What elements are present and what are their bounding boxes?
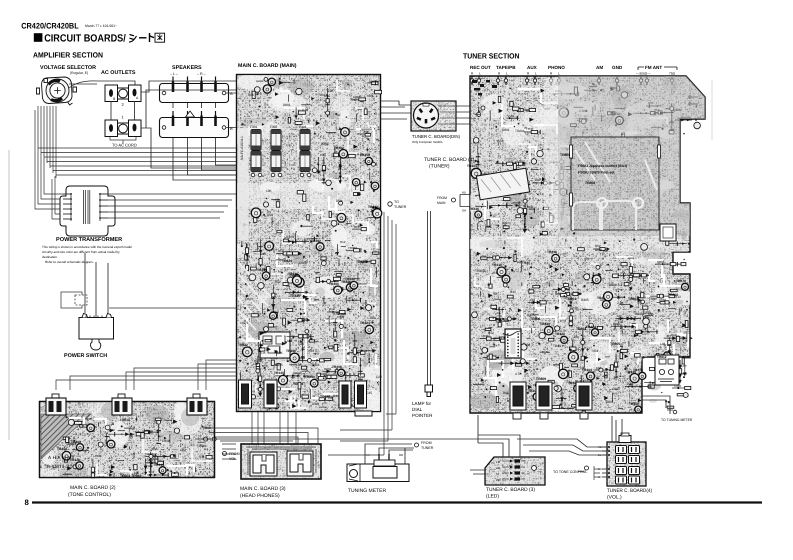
svg-text:L08: L08 (525, 343, 531, 347)
svg-text:C810: C810 (162, 439, 170, 443)
svg-text:TR40: TR40 (649, 297, 657, 301)
svg-text:R305: R305 (581, 298, 589, 302)
svg-text:TR804: TR804 (310, 363, 320, 367)
svg-text:POINTER: POINTER (412, 413, 433, 418)
power transformer T1 (60, 186, 115, 236)
svg-text:TR40: TR40 (522, 261, 530, 265)
svg-text:L08: L08 (660, 342, 666, 346)
svg-text:FROM: FROM (421, 441, 432, 445)
svg-text:10K: 10K (647, 385, 654, 389)
svg-text:R12: R12 (329, 307, 335, 311)
svg-text:TR458: TR458 (257, 268, 267, 272)
svg-text:AM: AM (596, 65, 603, 70)
svg-text:C803: C803 (477, 269, 485, 273)
svg-text:10K: 10K (328, 89, 335, 93)
svg-text:C803: C803 (683, 356, 691, 360)
to tuner marker (388, 202, 392, 206)
main board clutter mid-right (312, 128, 379, 191)
svg-text:473: 473 (620, 271, 625, 275)
svg-text:TUNER C. BOARD(4): TUNER C. BOARD(4) (607, 488, 652, 494)
svg-text:R66: R66 (503, 391, 509, 395)
svg-text:10K: 10K (617, 314, 622, 318)
svg-text:R801: R801 (324, 367, 332, 371)
svg-text:POWER TRANSFORMER: POWER TRANSFORMER (56, 237, 122, 243)
svg-text:473: 473 (199, 455, 205, 459)
svg-text:TR436: TR436 (547, 250, 557, 254)
svg-text:circuitry and wire color are d: circuitry and wire color are different f… (42, 250, 120, 254)
svg-text:473: 473 (625, 324, 631, 328)
svg-text:102: 102 (596, 366, 601, 370)
heading: CIRCUIT BOARDS/sheet-zu (34, 33, 43, 42)
wire bundle selector to main board (35, 81, 236, 219)
svg-text:102: 102 (530, 298, 535, 302)
svg-text:10K: 10K (95, 454, 100, 458)
tuner board blotches (466, 75, 705, 409)
svg-text:TR40: TR40 (553, 344, 561, 348)
svg-text:NA-FC-61604-1: NA-FC-61604-1 (240, 136, 244, 160)
svg-text:B: B (230, 126, 233, 131)
svg-text:R66: R66 (370, 316, 376, 320)
svg-text:10K: 10K (277, 351, 284, 355)
svg-text:D801: D801 (283, 103, 291, 107)
svg-text:R66: R66 (354, 225, 360, 229)
svg-text:TR440: TR440 (274, 371, 284, 375)
svg-text:DIAL: DIAL (412, 407, 423, 412)
svg-text:TR805: TR805 (610, 342, 620, 346)
svg-text:2.2K: 2.2K (363, 130, 370, 134)
svg-text:S-IOəTə-ƆƆ: S-IOəTə-ƆƆ (47, 464, 73, 469)
svg-text:AC OUTLETS: AC OUTLETS (101, 70, 136, 76)
svg-text:TR806: TR806 (530, 317, 540, 321)
svg-text:C45: C45 (260, 252, 266, 256)
svg-text:L08: L08 (535, 178, 540, 182)
VOL board wires up (517, 416, 622, 455)
svg-text:D801: D801 (606, 400, 614, 404)
svg-text:R12: R12 (510, 290, 516, 294)
head phones wiring (246, 447, 316, 475)
svg-text:VR3: VR3 (308, 349, 314, 353)
svg-text:8: 8 (25, 498, 30, 507)
IC802 (505, 329, 521, 358)
svg-text:TR422: TR422 (238, 343, 248, 347)
svg-text:RD: RD (598, 446, 602, 449)
svg-text:TUNER: TUNER (394, 205, 407, 209)
svg-text:C22: C22 (376, 375, 382, 379)
svg-text:TR808: TR808 (585, 181, 595, 185)
main C board (MAIN) outline and texture (236, 74, 381, 412)
svg-text:R12: R12 (666, 351, 672, 355)
dial scale plate (476, 168, 529, 200)
svg-text:R66: R66 (152, 447, 158, 451)
wires meter (365, 444, 414, 454)
white box TR811 (655, 355, 679, 385)
tone board border restroke (40, 402, 215, 478)
svg-text:(LED): (LED) (486, 494, 499, 500)
VOL board left pins (602, 446, 610, 478)
svg-text:VR3: VR3 (257, 343, 263, 347)
svg-text:(Regular, E): (Regular, E) (70, 71, 88, 75)
svg-text:R305: R305 (321, 142, 329, 146)
svg-text:AHAMAY: AHAMAY (48, 455, 76, 460)
svg-text:C803: C803 (299, 261, 307, 265)
svg-text:L08: L08 (148, 452, 153, 456)
svg-text:102: 102 (502, 221, 508, 225)
svg-text:4.7K: 4.7K (360, 330, 367, 334)
tuner transistor labels (500, 153, 678, 381)
svg-text:FS08J Japanese models (BA1): FS08J Japanese models (BA1) (578, 164, 627, 168)
svg-text:4.7K: 4.7K (560, 329, 567, 333)
svg-text:L08: L08 (618, 320, 624, 324)
svg-text:TR436: TR436 (469, 207, 479, 211)
svg-text:TR422: TR422 (356, 260, 366, 264)
svg-text:TR402: TR402 (334, 146, 344, 150)
page fold crease left (8, 150, 10, 440)
svg-text:D801: D801 (595, 248, 603, 252)
tuner board clutter mid band (475, 231, 690, 291)
svg-text:473: 473 (584, 257, 590, 261)
svg-text:FM ANT: FM ANT (645, 65, 662, 70)
svg-text:REC OUT: REC OUT (470, 65, 491, 70)
svg-text:473: 473 (243, 321, 249, 325)
svg-text:C45: C45 (298, 342, 304, 346)
main board clutter mid (236, 189, 382, 271)
svg-text:(TUNER): (TUNER) (429, 164, 450, 170)
svg-text:TUNER C. BOARD(DIN): TUNER C. BOARD(DIN) (412, 134, 461, 139)
svg-text:75Ω: 75Ω (669, 72, 676, 76)
svg-text:FROM: FROM (229, 452, 240, 456)
svg-text:R9: R9 (526, 109, 530, 113)
svg-text:MAIN C. BOARD (2): MAIN C. BOARD (2) (70, 485, 116, 491)
svg-text:AMPLIFIER SECTION: AMPLIFIER SECTION (33, 51, 103, 60)
tone board top connectors (52, 394, 59, 399)
speaker terminal board A (160, 84, 229, 103)
svg-text:LAMP for: LAMP for (412, 401, 432, 406)
svg-text:R12: R12 (278, 249, 284, 253)
main board diagonal traces (238, 262, 272, 346)
svg-text:– L –: – L – (170, 72, 178, 76)
svg-text:Only European models: Only European models (412, 140, 443, 144)
wires speakers to main board (173, 93, 236, 180)
LED board wires (195, 415, 520, 474)
svg-text:RD: RD (462, 191, 466, 195)
tuner board bottom connectors (510, 382, 592, 410)
svg-text:D801: D801 (320, 372, 328, 376)
transformer pins (63, 193, 108, 220)
tone board hatched wedge (41, 414, 91, 459)
svg-text:4.7K: 4.7K (357, 152, 364, 156)
svg-text:POWER SWITCH: POWER SWITCH (64, 353, 107, 359)
svg-text:C803: C803 (271, 310, 279, 314)
svg-text:473: 473 (486, 225, 492, 229)
svg-text:10K: 10K (580, 366, 587, 370)
svg-text:L08: L08 (253, 362, 259, 366)
FM ANT bracket (638, 67, 677, 70)
tuner light vein (473, 78, 688, 252)
tuner dark zone (558, 76, 705, 236)
svg-text:R9: R9 (267, 210, 271, 214)
svg-text:TR424: TR424 (467, 164, 477, 168)
svg-text:VR3: VR3 (600, 298, 606, 302)
svg-text:TR414: TR414 (154, 463, 164, 467)
svg-text:R12: R12 (671, 333, 677, 337)
svg-text:GY: GY (598, 476, 602, 479)
svg-text:TR802: TR802 (628, 297, 638, 301)
main board clutter top (241, 78, 381, 127)
tuner board top pins (470, 76, 673, 85)
svg-text:TR804: TR804 (515, 129, 525, 133)
svg-text:C803: C803 (245, 297, 253, 301)
svg-text:TR446: TR446 (288, 272, 298, 276)
svg-text:PHONO: PHONO (548, 65, 565, 70)
svg-text:TR812: TR812 (657, 355, 667, 359)
svg-text:destination.: destination. (42, 255, 58, 259)
tuning meter (347, 460, 409, 482)
svg-text:Refer to overall schematic dia: Refer to overall schematic diagram. (45, 260, 94, 264)
dial area edge slots (570, 145, 661, 206)
svg-text:TR803: TR803 (576, 327, 586, 331)
svg-text:TR809: TR809 (536, 377, 546, 381)
voltage selector S1 (37, 77, 77, 105)
svg-text:R9: R9 (349, 296, 353, 300)
LED board outline (485, 457, 545, 485)
svg-text:MAIN: MAIN (437, 201, 446, 205)
svg-text:R66: R66 (248, 93, 254, 97)
wires above head phones (205, 428, 318, 445)
svg-text:D801: D801 (502, 128, 510, 132)
transformer lead wires left (63, 194, 71, 219)
tuner board clutter bottom (472, 279, 693, 415)
svg-text:R9: R9 (129, 435, 133, 439)
svg-text:D801: D801 (495, 336, 503, 340)
svg-text:VR3: VR3 (367, 94, 373, 98)
svg-text:TR430: TR430 (290, 294, 300, 298)
svg-text:C803: C803 (370, 80, 378, 84)
bottom rule (32, 501, 762, 503)
svg-text:CR420/CR420BL: CR420/CR420BL (21, 22, 79, 31)
svg-text:AM: AM (496, 466, 501, 470)
wires AC outlets (97, 81, 236, 168)
svg-text:BL: BL (598, 454, 602, 457)
svg-text:OR: OR (462, 209, 466, 213)
wires to power switch (85, 253, 237, 317)
svg-text:TR804: TR804 (197, 444, 207, 448)
svg-text:TUNER C. BOARD (3): TUNER C. BOARD (3) (486, 487, 535, 493)
svg-text:TR430: TR430 (540, 322, 550, 326)
tuner input labels (470, 65, 662, 70)
svg-text:10K: 10K (275, 198, 282, 202)
speaker terminal board B (160, 118, 229, 138)
svg-text:PW: PW (496, 478, 501, 482)
svg-text:GND: GND (612, 65, 623, 70)
from tuner marker (415, 443, 419, 447)
svg-text:SPEAKERS: SPEAKERS (172, 65, 202, 71)
svg-text:C803: C803 (612, 387, 620, 391)
svg-text:TR804: TR804 (607, 283, 617, 287)
svg-text:TUNER C. BOARD (1): TUNER C. BOARD (1) (424, 157, 475, 163)
svg-text:TR424: TR424 (360, 321, 370, 325)
VOL board outline (607, 442, 646, 486)
svg-text:C22: C22 (180, 448, 186, 452)
tuner dial cord area (571, 137, 659, 230)
svg-text:L08: L08 (303, 108, 309, 112)
svg-text:TR804: TR804 (348, 246, 357, 250)
to tone control marker (585, 466, 589, 470)
tone board clutter (57, 416, 216, 478)
svg-text:March.77 F 101.001~: March.77 F 101.001~ (85, 24, 117, 28)
main board bottom tab (355, 411, 372, 416)
lamp for dial pointer (425, 385, 433, 392)
svg-text:TR450: TR450 (305, 375, 315, 379)
tuner board outline and texture (470, 76, 705, 413)
svg-text:2.2K: 2.2K (572, 306, 579, 310)
svg-text:TUNER SECTION: TUNER SECTION (463, 51, 520, 60)
svg-text:TR804: TR804 (371, 206, 381, 210)
svg-text:TR432: TR432 (311, 239, 321, 243)
svg-text:10K: 10K (603, 249, 610, 253)
transformer note (42, 245, 132, 264)
component box right (660, 224, 676, 241)
svg-text:F302: F302 (270, 125, 277, 129)
tuner C board DIN (411, 101, 456, 131)
svg-text:VOL.: VOL. (229, 457, 237, 461)
svg-text:R12: R12 (488, 331, 494, 335)
svg-text:4.7K: 4.7K (515, 372, 522, 376)
svg-text:TR424: TR424 (282, 259, 292, 263)
svg-text:TR404: TR404 (57, 447, 67, 451)
main board bottom connectors (239, 380, 367, 408)
AC outlet 2 (105, 85, 141, 102)
svg-text:10K: 10K (296, 363, 303, 367)
svg-text:A: A (230, 91, 233, 96)
svg-text:R12: R12 (275, 280, 281, 284)
svg-text:CIRCUIT BOARDS/: CIRCUIT BOARDS/ (44, 34, 126, 45)
svg-text:(TONE CONTROL): (TONE CONTROL) (68, 492, 111, 498)
svg-text:TO TONE CONTROL: TO TONE CONTROL (553, 470, 587, 474)
svg-text:L: L (479, 72, 481, 76)
head phones board (241, 444, 321, 479)
transformer lead wires right (100, 194, 236, 218)
svg-text:TR424: TR424 (586, 325, 596, 329)
svg-text:2.2K: 2.2K (320, 153, 326, 157)
svg-text:L: L (535, 72, 537, 76)
svg-text:102: 102 (287, 339, 293, 343)
pilot lamp symbol (186, 111, 195, 117)
svg-text:ST: ST (496, 472, 500, 476)
svg-text:R305: R305 (275, 363, 283, 367)
svg-text:TR470: TR470 (676, 279, 686, 283)
svg-text:VR3: VR3 (645, 311, 651, 315)
wire bundle main board to bottom boards (56, 212, 396, 459)
svg-text:473: 473 (524, 228, 530, 232)
svg-text:D50: D50 (336, 199, 342, 203)
power switch linkage box (61, 292, 87, 308)
tuner board clutter left column (467, 138, 570, 235)
speaker plugs row 2 (173, 111, 216, 123)
svg-text:TAPE/PB: TAPE/PB (496, 65, 516, 70)
to tuning meter wire (642, 396, 673, 414)
tuner top-left pad cluster (472, 80, 497, 96)
svg-text:R12: R12 (340, 240, 346, 244)
tuner board clutter top band (473, 82, 701, 138)
svg-text:(VOL.): (VOL.) (607, 495, 622, 501)
svg-text:FM: FM (496, 460, 501, 464)
svg-text:2.2K: 2.2K (617, 301, 624, 305)
tuning meter pins (379, 454, 389, 460)
main board clutter bottom (power amp) (238, 267, 382, 410)
svg-text:D50: D50 (312, 402, 318, 406)
svg-text:TO: TO (394, 200, 399, 204)
VOL board slots (616, 446, 640, 485)
svg-text:L08: L08 (153, 457, 159, 461)
relay box S-301 (259, 332, 290, 358)
svg-text:TR410: TR410 (492, 263, 502, 267)
main board light band (237, 183, 380, 209)
svg-text:L: L (558, 72, 560, 76)
svg-text:TR501 TR502: TR501 TR502 (120, 474, 141, 478)
svg-text:C803: C803 (337, 315, 345, 319)
to AC cord marker (110, 137, 136, 144)
svg-text:473: 473 (523, 204, 529, 208)
svg-text:10K: 10K (266, 189, 273, 193)
svg-text:10K: 10K (574, 335, 579, 339)
svg-text:FROM: FROM (437, 196, 447, 200)
svg-text:This wiring is shown in accord: This wiring is shown in accordance with … (42, 245, 132, 249)
svg-text:R305: R305 (635, 312, 643, 316)
svg-text:R305: R305 (286, 235, 294, 239)
svg-text:102: 102 (149, 470, 154, 474)
LED board contents (496, 460, 501, 482)
corner pin marks (689, 96, 698, 105)
svg-text:F301: F301 (250, 125, 257, 129)
svg-text:—300Ω—: —300Ω— (636, 72, 651, 76)
svg-text:C45: C45 (260, 351, 266, 355)
svg-text:TR476: TR476 (633, 368, 643, 372)
wires main to DIN (381, 101, 470, 124)
svg-text:102: 102 (318, 178, 324, 182)
head phone jack J2 (287, 451, 313, 476)
svg-text:C22: C22 (497, 139, 503, 143)
svg-text:TR503: TR503 (66, 442, 76, 446)
tuner bottom tabs (513, 413, 588, 419)
svg-text:(HEAD PHONES): (HEAD PHONES) (240, 493, 280, 499)
svg-text:D50: D50 (529, 207, 535, 211)
main board TR labels (282, 259, 366, 399)
svg-text:TO TUNING METER: TO TUNING METER (661, 418, 693, 422)
svg-text:TR406: TR406 (286, 349, 296, 353)
svg-text:TUNER: TUNER (421, 446, 434, 450)
tone control board outline (39, 401, 215, 478)
main board fuse F301 (250, 125, 311, 177)
svg-text:C45: C45 (498, 355, 504, 359)
svg-text:TR456: TR456 (629, 402, 639, 406)
svg-text:TR801: TR801 (566, 297, 576, 301)
svg-text:TR438: TR438 (345, 277, 355, 281)
svg-text:BN: BN (598, 468, 602, 471)
svg-text:IC802: IC802 (500, 319, 509, 323)
lamp wires (428, 211, 431, 385)
svg-text:TR406: TR406 (332, 365, 342, 369)
svg-text:TR400: TR400 (329, 282, 339, 286)
svg-text:10K: 10K (120, 418, 127, 422)
svg-text:TR804: TR804 (560, 153, 570, 157)
head phone jack J1 (250, 452, 277, 476)
svg-text:TUNING METER: TUNING METER (348, 488, 386, 494)
dial cord white paths (573, 142, 657, 230)
power switch SW1 (79, 314, 114, 351)
svg-text:MAIN C. BOARD (MAIN): MAIN C. BOARD (MAIN) (238, 63, 297, 69)
svg-text:FS08U 51W/S Print-set: FS08U 51W/S Print-set (578, 171, 615, 175)
svg-text:TO AC CORD: TO AC CORD (112, 143, 137, 148)
